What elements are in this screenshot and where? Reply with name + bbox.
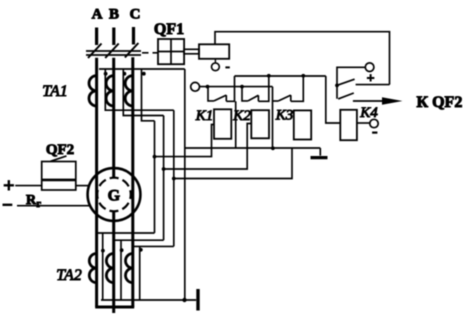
TA2 polarity dot phase B <box>120 248 124 252</box>
TA2 polarity dot phase A <box>101 249 105 253</box>
vertical run V1 <box>154 121 156 233</box>
TA1 secondary lead phase C <box>142 69 155 121</box>
wire K1 coil to V1 <box>155 125 215 157</box>
svg-text:A: A <box>92 7 103 23</box>
breaker blade phase B <box>105 44 119 59</box>
wire coil bottom to circle <box>214 59 216 63</box>
ground wire <box>185 147 320 149</box>
TA2 common terminal bar <box>196 289 199 311</box>
junction dot V1 <box>153 155 157 159</box>
common return V4 <box>184 69 186 300</box>
junction dot lower bus K2 <box>240 85 244 89</box>
phase A incoming stub <box>95 28 98 46</box>
junction dot ground wire K3 <box>271 146 275 150</box>
phase B line upper <box>112 58 115 178</box>
junction dot V3 <box>172 177 176 181</box>
riser contact K1 terminal to ground wire <box>235 101 237 148</box>
generator star bar <box>95 306 134 309</box>
relay coil K2 <box>251 110 269 138</box>
contact K3 left terminal <box>272 87 274 149</box>
contact K1 blade <box>214 95 226 101</box>
breaker linkage rail upper <box>86 50 141 52</box>
breaker blade phase A <box>88 44 102 59</box>
phase B line lower <box>112 211 115 307</box>
QF2 blade <box>51 156 67 161</box>
TA1 secondary lead phase A <box>105 69 174 110</box>
minus terminal dash <box>3 204 13 206</box>
QF1 box vertical divider <box>170 39 172 64</box>
svg-text:+: + <box>3 175 14 197</box>
plus circle terminal <box>365 63 374 72</box>
TA2 polarity dot phase C <box>139 248 143 252</box>
vertical run V2 <box>163 116 165 241</box>
wire K2 coil to V2 <box>164 124 252 170</box>
ground bar <box>311 156 328 159</box>
QF1 trip coil box <box>199 44 229 59</box>
trip coil terminal circle <box>212 63 220 71</box>
phase C line <box>131 57 134 307</box>
TA2 winding phase B <box>106 254 113 283</box>
contact K2 blade <box>248 95 258 101</box>
wire K3 riser to V3 <box>174 148 292 179</box>
contact K4 upper fixed terminal <box>356 84 390 86</box>
wire upper bus to K4 coil <box>326 76 341 123</box>
junction dot V4 common <box>182 298 186 302</box>
junction dot upper bus K2 <box>267 74 271 78</box>
contact K1 left terminal <box>208 87 214 101</box>
contact K3 right terminal <box>291 76 304 101</box>
TA2 secondary lead phase A <box>97 233 155 300</box>
star bar stub <box>112 307 115 313</box>
TA2 winding phase A <box>89 254 96 283</box>
minus sign near trip coil <box>225 66 229 68</box>
relay coil K1 <box>214 109 231 139</box>
svg-text:QF2: QF2 <box>46 142 74 158</box>
wire K4 coil to minus circle <box>357 122 370 124</box>
TA2 secondary lead phase B <box>114 240 164 300</box>
TA1 winding phase A <box>89 76 97 106</box>
dashed link to QF1 <box>142 52 158 54</box>
ground stub <box>319 148 321 156</box>
TA2 winding phase C <box>126 254 133 283</box>
TA1 winding phase B <box>106 76 114 106</box>
arrow head <box>382 97 403 104</box>
QF1 box horizontal divider <box>158 51 184 53</box>
QF2 box divider / resistor top <box>42 179 76 182</box>
phase C incoming stub <box>132 27 135 45</box>
wire trip coil top to K4 contact <box>215 32 390 85</box>
contact K3 hinge stub <box>273 100 279 102</box>
generator G outer circle <box>88 168 141 221</box>
vertical run V3 <box>173 110 175 246</box>
svg-text:К QF2: К QF2 <box>417 94 463 111</box>
svg-text:TA1: TA1 <box>42 83 67 100</box>
TA1 secondary common bus <box>99 68 185 70</box>
TA2 secondary lead phase C <box>133 246 174 300</box>
junction dot K4 contact column <box>335 84 339 88</box>
contact K2 fixed tick <box>257 95 259 101</box>
junction dot upper bus K3 <box>301 74 305 78</box>
K4 minus dash <box>372 132 377 134</box>
svg-text:г: г <box>37 199 42 210</box>
contact K2 right terminal <box>258 76 268 101</box>
wire plus to QF2 box <box>15 185 42 187</box>
svg-text:QF1: QF1 <box>154 21 184 38</box>
TA1 secondary lead phase B <box>123 69 163 116</box>
TA2 secondary common bus <box>101 299 196 301</box>
relay coil K3 <box>294 110 311 139</box>
contact K4 lower blade <box>338 93 354 99</box>
breaker blade phase C <box>125 43 138 58</box>
svg-text:К1: К1 <box>195 108 213 124</box>
junction dot V2 <box>162 167 166 171</box>
generator G inner dashed circle <box>97 178 131 212</box>
K4 minus circle terminal <box>370 119 378 127</box>
contact K1 right terminal <box>226 76 234 101</box>
contact K3 blade <box>279 95 291 101</box>
TA1 polarity dot phase A <box>104 72 108 76</box>
contact K3 fixed tick <box>290 95 292 101</box>
svg-text:TA2: TA2 <box>56 267 81 284</box>
wire plus circle to K4 contact column <box>337 67 365 98</box>
breaker QF1 box <box>158 39 184 64</box>
supply circle terminal left <box>191 82 200 91</box>
TA1 polarity dot phase C <box>142 72 146 76</box>
relay coil K4 <box>340 110 357 140</box>
svg-text:C: C <box>130 7 141 23</box>
svg-text:К4: К4 <box>359 105 378 121</box>
phase B incoming stub <box>112 28 115 46</box>
svg-text:G: G <box>108 187 121 204</box>
wire QF2 box to generator <box>76 185 89 187</box>
contact K1 fixed tick <box>225 95 227 101</box>
svg-text:К3: К3 <box>275 108 293 124</box>
lower control bus <box>200 86 273 88</box>
wire minus to generator <box>17 205 90 207</box>
upper control bus <box>235 75 326 77</box>
TA1 polarity dot phase B <box>123 72 127 76</box>
contact K4 upper blade <box>338 79 355 85</box>
svg-text:B: B <box>109 7 119 23</box>
signal line to QF2 with arrow <box>353 100 384 102</box>
breaker linkage rail lower <box>86 54 141 56</box>
phase A line <box>95 58 98 307</box>
TA1 winding phase C <box>125 76 133 106</box>
contact K2 left terminal <box>242 87 248 101</box>
mechanical link QF1 to trip coil <box>184 49 199 54</box>
QF2 field breaker box <box>42 162 76 191</box>
junction dot lower bus K1 <box>206 85 210 89</box>
